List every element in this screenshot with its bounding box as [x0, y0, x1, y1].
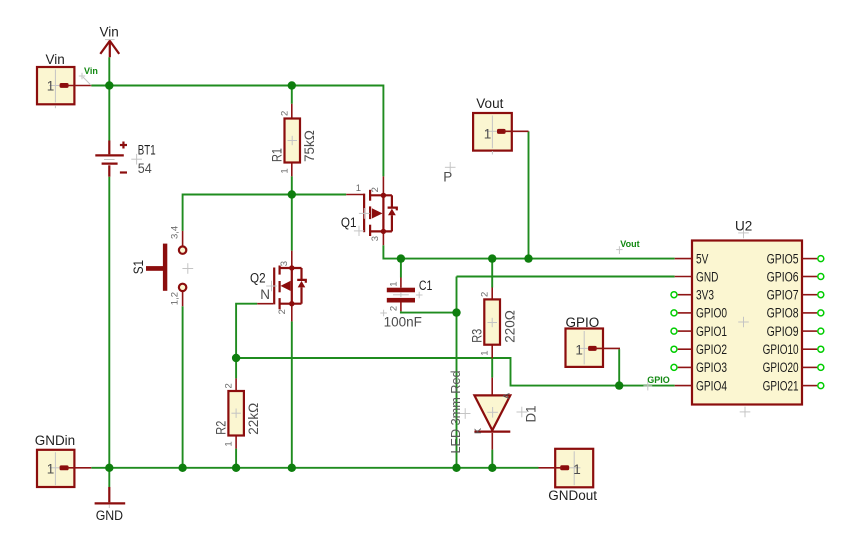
svg-text:GPIO8: GPIO8: [767, 306, 799, 321]
wire Q2 drain riser: [291, 195, 293, 251]
wire GPIO connector to GPIO net: [618, 349, 620, 385]
U2 pin GND: [675, 276, 692, 278]
svg-text:54: 54: [138, 161, 152, 176]
svg-text:S1: S1: [131, 260, 146, 274]
connector GNDout: [539, 449, 598, 503]
svg-text:2: 2: [370, 187, 381, 192]
svg-text:GPIO9: GPIO9: [767, 324, 799, 339]
wire S1 bottom to ground rail: [182, 306, 184, 468]
wire C1 top: [400, 259, 402, 278]
net label Vout: [616, 239, 639, 254]
junction gate node: [288, 190, 296, 198]
svg-text:22kΩ: 22kΩ: [246, 403, 261, 435]
wire R2 top: [235, 358, 237, 378]
junction R3 top: [488, 254, 496, 262]
svg-text:3,4: 3,4: [170, 226, 181, 239]
wire battery minus to ground rail: [108, 177, 110, 468]
svg-text:2: 2: [480, 292, 491, 297]
svg-text:3: 3: [279, 261, 290, 266]
junction ground rail at C1 column: [452, 464, 460, 472]
svg-text:2: 2: [279, 111, 290, 116]
U2 pin GPIO1: [678, 330, 692, 332]
U2 pin GPIO9: [802, 330, 817, 332]
svg-text:GND: GND: [96, 508, 124, 523]
junction GPIO: [615, 381, 623, 389]
U2 pin GPIO6: [802, 276, 817, 278]
U2 pin GPIO2: [678, 348, 692, 350]
junction ground rail at D1: [488, 464, 496, 472]
svg-text:220Ω: 220Ω: [502, 310, 517, 343]
U2 pin GPIO20: [802, 366, 817, 368]
resistor R3: [469, 288, 517, 359]
wire R1 bottom to gate node: [291, 176, 293, 194]
svg-text:GPIO6: GPIO6: [767, 269, 799, 284]
svg-text:1: 1: [47, 79, 55, 94]
svg-text:LED 3mm Red: LED 3mm Red: [448, 371, 463, 454]
wire supply stem: [108, 57, 110, 85]
wire ground symbol stub: [108, 468, 110, 487]
svg-text:GPIO10: GPIO10: [763, 342, 799, 357]
junction ground rail at S1: [178, 464, 186, 472]
wire Vin rail (net Vin): [91, 86, 383, 177]
svg-text:P: P: [443, 170, 452, 185]
wire R3 top: [491, 259, 493, 288]
U2 pin GPIO8: [802, 312, 817, 314]
switch S1: [131, 226, 193, 306]
transistor Q1 (P-MOSFET): [341, 176, 397, 245]
junction C1 bottom: [452, 308, 460, 316]
junction ground rail at GNDin: [105, 464, 113, 472]
junction C1 top: [397, 254, 405, 262]
junction Vin/battery: [105, 81, 113, 89]
wire Vout column: [528, 131, 530, 258]
svg-text:Vout: Vout: [476, 96, 503, 111]
svg-text:R1: R1: [270, 148, 285, 162]
svg-text:1: 1: [47, 461, 55, 476]
svg-text:1: 1: [480, 351, 491, 356]
wire R2 bottom: [235, 449, 237, 468]
svg-text:3: 3: [370, 236, 381, 241]
svg-text:Vin: Vin: [84, 66, 98, 76]
svg-text:U2: U2: [735, 219, 752, 234]
U2 pin GPIO7: [802, 294, 817, 296]
U2 pin GPIO10: [802, 348, 817, 350]
LED D1: [448, 371, 539, 454]
svg-text:1,2: 1,2: [170, 292, 181, 305]
wire Q1 drain to 5V rail: [383, 245, 674, 258]
svg-text:Vin: Vin: [100, 25, 119, 40]
svg-text:D1: D1: [524, 406, 539, 423]
wire Q2 source to ground rail: [291, 321, 293, 467]
svg-text:GPIO2: GPIO2: [696, 342, 727, 357]
wire GPIO net row: [236, 358, 675, 386]
U2 pin GPIO5: [802, 258, 817, 260]
connector Vout: [473, 96, 528, 155]
svg-text:N: N: [260, 287, 270, 302]
U2 pin 5V: [675, 258, 692, 260]
U2 pin GPIO3: [678, 366, 692, 368]
svg-text:2: 2: [224, 383, 235, 388]
svg-text:GNDin: GNDin: [35, 433, 76, 448]
capacitor C1: [380, 278, 432, 330]
svg-text:1: 1: [389, 282, 400, 287]
net label GPIO: [643, 375, 669, 390]
svg-text:Vout: Vout: [620, 239, 639, 249]
svg-text:1: 1: [356, 183, 361, 194]
wire D1 cathode to ground rail: [491, 450, 493, 468]
svg-text:K: K: [473, 428, 483, 434]
junction R1 top: [288, 81, 296, 89]
svg-text:1: 1: [575, 343, 583, 358]
svg-text:Vin: Vin: [46, 52, 65, 67]
svg-text:GPIO: GPIO: [647, 375, 670, 385]
svg-text:2: 2: [277, 309, 288, 314]
wire R3 to D1: [491, 358, 493, 377]
resistor R2: [213, 378, 261, 448]
junction ground rail at Q2: [288, 464, 296, 472]
wire ground rail: [91, 467, 538, 469]
connector GNDin: [35, 433, 92, 487]
svg-text:GPIO4: GPIO4: [696, 378, 727, 393]
wire battery top: [108, 86, 110, 141]
junction ground rail at R2: [232, 464, 240, 472]
svg-text:GPIO7: GPIO7: [767, 288, 799, 303]
supply symbol Vin: [100, 25, 120, 58]
svg-text:GPIO21: GPIO21: [763, 378, 799, 393]
svg-text:Q2: Q2: [250, 271, 266, 286]
U2 pin GPIO21: [802, 385, 817, 387]
ground symbol GND: [95, 487, 126, 523]
svg-text:GPIO0: GPIO0: [696, 306, 727, 321]
wire Q2 gate: [236, 304, 257, 358]
svg-text:Q1: Q1: [341, 215, 357, 230]
svg-text:A: A: [502, 393, 512, 399]
battery BT1: [95, 141, 155, 177]
svg-text:1: 1: [279, 168, 290, 173]
svg-text:100nF: 100nF: [384, 315, 422, 330]
svg-text:GND: GND: [696, 269, 719, 284]
svg-text:BT1: BT1: [138, 143, 156, 158]
wire GND column: [456, 277, 458, 468]
svg-text:GPIO3: GPIO3: [696, 360, 727, 375]
svg-text:GPIO20: GPIO20: [763, 360, 799, 375]
svg-text:1: 1: [484, 126, 492, 141]
net label Vin: [79, 66, 98, 85]
wire R1 top: [291, 86, 293, 104]
wire C1 bottom to GND node: [401, 311, 457, 312]
svg-text:GPIO1: GPIO1: [696, 324, 727, 339]
U2 pin GPIO4: [675, 385, 692, 387]
value P of Q1: [443, 162, 455, 185]
svg-text:C1: C1: [419, 278, 433, 293]
wire gate row S1 to Q1: [183, 195, 347, 231]
svg-text:75kΩ: 75kΩ: [302, 130, 317, 162]
svg-text:GNDout: GNDout: [548, 488, 597, 503]
svg-text:GPIO: GPIO: [566, 315, 600, 330]
junction Vout: [524, 254, 532, 262]
connector GPIO: [566, 315, 621, 367]
svg-text:2: 2: [389, 306, 400, 311]
svg-text:1: 1: [224, 441, 235, 446]
svg-text:3V3: 3V3: [696, 288, 714, 303]
resistor R1: [270, 104, 318, 177]
svg-text:R2: R2: [213, 421, 228, 435]
svg-text:5V: 5V: [696, 251, 708, 266]
IC U2: [671, 219, 824, 418]
svg-text:R3: R3: [469, 329, 484, 343]
U2 pin 3V3: [678, 294, 692, 296]
junction R2 top: [232, 354, 240, 362]
transistor Q2 (N-MOSFET): [250, 251, 306, 322]
svg-text:GPIO5: GPIO5: [767, 251, 799, 266]
connector Vin: [37, 52, 91, 108]
U2 pin GPIO0: [678, 312, 692, 314]
wire GND row to U2: [457, 276, 675, 278]
svg-text:1: 1: [573, 462, 581, 477]
